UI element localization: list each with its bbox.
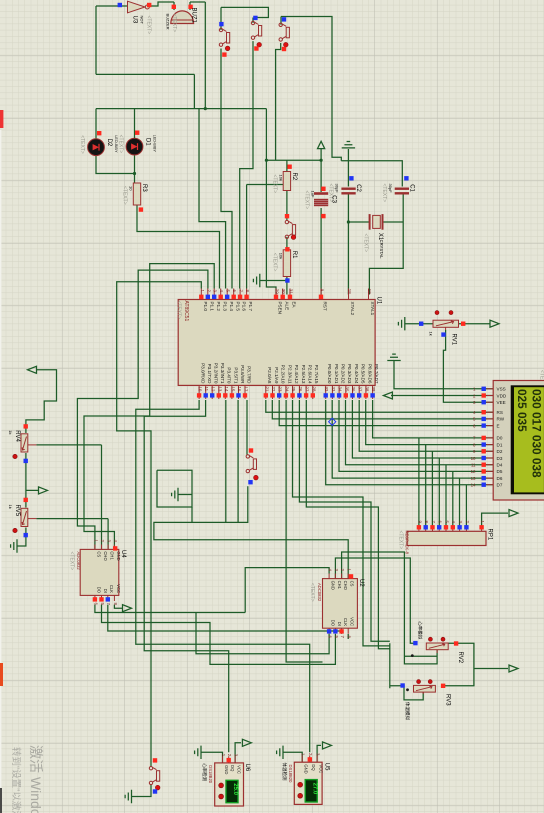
wire RV1 left to gnd [405,323,433,325]
U6 pins [222,756,224,763]
pot RV3 body [414,685,436,692]
svg-text:P0.6/AD6: P0.6/AD6 [367,364,372,384]
ground box (bottom left of MCU) [172,488,178,501]
svg-text:体温模拟: 体温模拟 [404,702,411,720]
wire U3 input net [96,6,194,109]
pot RV5 body [21,508,28,526]
node D1 D2 junction [133,172,136,175]
svg-text:RST: RST [323,302,328,311]
svg-text:P3.6/WR: P3.6/WR [240,365,245,384]
capacitor C1 [395,188,409,190]
svg-text:P2.2/A10: P2.2/A10 [281,365,286,384]
svg-text:C2: C2 [355,184,361,192]
wire RP1 riser 6 [452,471,454,526]
svg-text:BUZZER: BUZZER [166,14,171,30]
U5 display [305,780,317,802]
wire W1 P1.0 to button6 [117,282,202,767]
wire P0.2 to LCD D5 [339,400,493,471]
svg-text:VCC: VCC [319,764,324,773]
svg-text:CH1: CH1 [337,581,342,590]
resistor R1 [283,250,290,277]
svg-text:025 035: 025 035 [515,389,529,432]
wire P3.6 stub down [237,400,239,522]
power arrow RV4 (left) [28,366,37,373]
svg-text:15: 15 [230,387,235,392]
wire button6 bottom to gnd [132,785,152,797]
svg-text:P1.4: P1.4 [229,302,234,312]
wire rail B [341,161,402,187]
svg-text:P1.2: P1.2 [216,302,221,312]
node VCC rail junction [320,159,323,162]
svg-text:11: 11 [471,463,476,468]
svg-text:14: 14 [471,483,476,488]
svg-text:25.0: 25.0 [232,783,238,795]
svg-text:CLK: CLK [109,585,114,593]
svg-text:P0.5/AD5: P0.5/AD5 [361,364,366,384]
svg-text:RV5: RV5 [14,505,20,517]
wire P2.0 to LCD RS [266,400,493,412]
svg-text:19: 19 [367,289,372,294]
svg-text:P1.3: P1.3 [222,302,227,312]
wire W2 P1.1 to U4 [77,270,208,549]
wire rail top (LED rail) [96,108,266,110]
svg-text:D4: D4 [497,463,503,468]
svg-text:10k: 10k [279,175,284,181]
ADC U4 ADC0832 body [80,549,119,595]
svg-text:ADC0832: ADC0832 [76,552,81,571]
wire U5 gnd [283,752,302,762]
svg-text:10k: 10k [279,253,284,259]
svg-text:1k: 1k [8,430,13,434]
wire buzzer to rail [204,2,206,109]
svg-text:35: 35 [344,387,349,392]
power arrow U4 [123,605,132,612]
svg-text:D2: D2 [106,139,112,147]
svg-text:DQ: DQ [230,765,235,772]
svg-text:体温检测: 体温检测 [281,763,288,781]
svg-text:P2.1/A9: P2.1/A9 [274,367,279,384]
svg-text:ADC0832: ADC0832 [317,583,322,602]
wire P2.3 down to U2 area [286,400,322,662]
sensor U5 DS18B20 body [294,762,322,804]
svg-text:P3.0/RXD: P3.0/RXD [201,363,206,384]
svg-text:14: 14 [224,387,229,392]
svg-text:P2.7/A15: P2.7/A15 [314,365,319,384]
wire P3.4 stub down [225,400,227,522]
pot RV1 body [433,320,459,327]
wire R1 gnd stub [260,280,287,282]
svg-text:P0.2/AD2: P0.2/AD2 [341,364,346,384]
svg-text:CH1: CH1 [110,551,115,560]
wire RP1 pin1 to VCC arrow [482,513,508,526]
svg-text:P0.3/AD3: P0.3/AD3 [347,364,352,384]
svg-text:CRYSTAL: CRYSTAL [379,240,384,260]
svg-text:10: 10 [129,186,134,191]
svg-text:C1: C1 [409,184,415,192]
ground near R1 [253,274,259,287]
wire U2 DO loop [196,613,329,654]
svg-text:DS18B20: DS18B20 [288,765,293,784]
wire RP1 riser 1 [418,438,420,526]
svg-text:P3.2/INT0: P3.2/INT0 [214,363,219,384]
wire U2 CH0 to RV2 wiper loop [342,552,438,664]
pot RV4 body [21,434,28,452]
wire P3.1 to U6 DQ [144,400,229,752]
svg-text:<TEXT>: <TEXT> [303,191,309,210]
wire U6 gnd [201,752,223,763]
svg-text:30pF: 30pF [388,184,393,194]
MCU top pin stubs P1.0-P1.7 [200,289,202,300]
U5 pins [301,756,303,763]
svg-text:RW: RW [497,417,505,422]
U6 leds [219,783,224,788]
wire LCD VDD arrow [391,395,493,397]
svg-text:XTAL2: XTAL2 [350,302,355,316]
svg-text:U1: U1 [376,297,382,305]
ground U5 [277,746,283,759]
button B3 [279,23,289,41]
U4 bottom pins [94,595,96,601]
U5 leds [298,782,303,787]
svg-text:NOT: NOT [139,16,144,25]
power arrow RP1 [509,510,518,517]
capacitor C3 [314,192,328,195]
svg-text:P2.6/A14: P2.6/A14 [308,365,313,384]
wire C2 bottom to XTAL2 [347,195,349,295]
left edge artifacts [0,130,1,788]
svg-text:D5: D5 [497,469,503,474]
svg-text:VDD: VDD [497,393,507,398]
svg-text:U6: U6 [244,764,250,772]
svg-text:<TEXT>: <TEXT> [271,175,277,194]
wire P0.1 to LCD D6 [332,400,493,478]
svg-text:R2: R2 [291,173,297,181]
capacitor C2 [341,188,355,190]
wire RP1 riser 3 [431,451,433,526]
wire crystal left [348,221,369,223]
svg-text:激活 Windows: 激活 Windows [28,745,44,813]
svg-text:U2: U2 [358,579,364,587]
svg-text:23: 23 [278,387,283,392]
svg-text:P1.1: P1.1 [209,302,214,312]
node rail A left junction [265,159,268,162]
svg-text:38: 38 [364,387,369,392]
wire D1 bottom to R3 [134,155,136,183]
wire P0.3 to LCD D4 [346,400,494,465]
U2 bottom pins [328,628,330,634]
svg-text:P3.5/T1: P3.5/T1 [233,367,238,384]
svg-text:22: 22 [271,387,276,392]
wire RV3 wiper loop [400,686,423,700]
wire crystal right to C1 [384,221,404,223]
wire button3 top rail to gnd rail B [281,17,341,161]
resistor R3 [133,183,140,205]
svg-text:34: 34 [338,387,343,392]
wire U4 CH0 from RV4 wiper [36,445,101,550]
wire U4 DI bus to U2 DI [102,605,336,665]
wire U2 VCC stub [347,634,349,639]
svg-text:26: 26 [298,387,303,392]
wire W3 P1.2 to U4 gnd [84,264,214,550]
U2 top pins [328,574,330,579]
wire P2.4 to RV frame [293,400,401,688]
svg-text:P1.6: P1.6 [242,302,247,312]
svg-text:VEE: VEE [497,400,506,405]
svg-text:27.0: 27.0 [311,783,317,795]
svg-text:EA: EA [292,302,297,309]
svg-text:P2.5/A13: P2.5/A13 [301,365,306,384]
svg-text:DQ: DQ [311,764,316,771]
wire R2 top riser [286,160,288,171]
svg-text:25: 25 [291,387,296,392]
wire P2.6 tap [306,400,390,649]
power arrow RV1 [490,320,499,327]
svg-text:P0.0/AD0: P0.0/AD0 [327,364,332,384]
svg-text:VSS: VSS [497,387,506,392]
wire LCD VSS to gnd [394,361,493,389]
svg-text:RP1: RP1 [487,529,493,541]
svg-text:P1.5: P1.5 [235,302,240,312]
svg-text:D7: D7 [497,483,503,488]
node crystal C2 junction [347,220,350,223]
wire button2 bottom to P1.6 [240,41,253,288]
RP1 pins [418,530,420,532]
ground LCD VSS [387,354,400,360]
svg-text:<TEXT>: <TEXT> [171,14,177,33]
wire RV4 top staircase to arrow [26,370,57,433]
wire U4 CLK bus to U2 CLK [108,605,342,634]
svg-text:11: 11 [204,387,209,392]
wire R3 to P1.3 [137,205,220,289]
wire gate column to P1.4 [199,109,226,289]
button B2 [251,21,261,39]
svg-text:D1: D1 [497,442,503,447]
node voltage probe on P0.1 wire [329,418,336,425]
op-amp U3 NOT gate [128,1,146,13]
wire U5 VCC arrow [317,745,321,762]
svg-text:32: 32 [324,387,329,392]
wire LCD VEE to RV1 wiper [443,330,493,402]
wire button1 bottom to P1.5 [221,49,232,289]
svg-text:P3.3/INT1: P3.3/INT1 [220,363,225,384]
wire VCC arrow stem through C3 to RST [320,149,322,295]
svg-text:1k: 1k [8,505,13,509]
svg-text:27: 27 [305,387,310,392]
wire P2.2 to LCD E [279,400,493,426]
svg-text:33: 33 [331,387,336,392]
svg-text:<TEXT>: <TEXT> [271,253,277,272]
LED D1 [126,138,143,155]
svg-text:P0.1/AD1: P0.1/AD1 [334,364,339,384]
wire P0.4 to LCD D3 [352,400,493,458]
svg-text:P3.4/T0: P3.4/T0 [227,367,232,384]
svg-text:CS: CS [350,581,355,587]
svg-text:心率模拟: 心率模拟 [416,621,423,639]
svg-text:P1.0: P1.0 [203,302,208,312]
svg-text:16: 16 [237,387,242,392]
svg-text:C3: C3 [330,195,336,203]
svg-text:RS: RS [497,410,503,415]
svg-text:DI: DI [103,589,108,593]
svg-text:P2.0/A8: P2.0/A8 [267,367,272,384]
svg-text:P1.7: P1.7 [248,302,253,312]
svg-text:RV2: RV2 [457,652,463,664]
svg-text:13: 13 [471,476,476,481]
wire RP1 riser 4 [438,458,440,526]
svg-text:36: 36 [351,387,356,392]
svg-text:P3.7/RD: P3.7/RD [246,366,251,384]
svg-text:E: E [497,423,500,428]
svg-text:CS: CS [96,551,101,557]
svg-text:12: 12 [211,387,216,392]
svg-text:GND: GND [331,581,336,590]
wire RV4 bottom to arrow and RV5 top [26,453,38,508]
svg-text:<TEXT>: <TEXT> [176,301,182,320]
svg-text:12: 12 [471,469,476,474]
svg-text:VCC: VCC [116,584,121,593]
power arrow U6 [242,739,251,746]
power arrow VCC (up) [318,141,325,148]
svg-text:CHO: CHO [343,581,348,591]
svg-text:D3: D3 [497,456,503,461]
svg-text:30: 30 [281,289,286,294]
node buzzer rail junction [204,107,207,110]
svg-text:DO: DO [331,620,336,627]
wire R2 tap to P1.7 [247,185,284,289]
wire rail corner down to PSEN [266,109,276,295]
buzzer BUZ1 [171,11,194,24]
button B5 [246,455,256,473]
wire button5 bottom to U2 CS [154,486,348,578]
wire U2 gnd to bus [245,568,329,613]
svg-text:U5: U5 [323,763,329,771]
wire RP1 riser 8 [465,485,467,526]
wire C1 bottom to XTAL1 [369,195,403,295]
wire RP1 riser 5 [445,465,447,526]
wire U6 VCC arrow [235,743,241,763]
svg-text:31: 31 [289,289,294,294]
wire P2.1 to LCD RW [272,400,493,419]
svg-text:D0: D0 [497,436,503,441]
svg-text:37: 37 [358,387,363,392]
wire U2 CH1 to RV2 left [335,558,413,643]
svg-text:GND: GND [304,764,309,773]
ground U6 [195,746,201,759]
MCU U1 AT89C51 body [178,300,375,386]
svg-text:RV4: RV4 [14,430,20,442]
svg-text:XTAL1: XTAL1 [370,302,375,316]
svg-text:U4: U4 [120,550,126,558]
button B6 [149,767,159,785]
svg-text:29: 29 [275,289,280,294]
wire D2 bottom to D1 bottom [96,156,135,174]
wire gnd to C2 [347,149,349,187]
svg-text:LED-BIBY: LED-BIBY [152,135,156,153]
svg-text:R3: R3 [141,184,147,192]
svg-text:D6: D6 [497,476,503,481]
wire RP1 riser 7 [459,478,461,526]
wire R2 to button4 [286,191,288,221]
U4 top pins [94,545,96,550]
svg-text:RV3: RV3 [444,694,450,706]
svg-text:10: 10 [471,456,476,461]
svg-text:030 017 030 038: 030 017 030 038 [530,389,544,478]
svg-text:<TEXT>: <TEXT> [122,186,128,205]
svg-text:13: 13 [217,387,222,392]
wire P2.5 tap [299,400,389,641]
wire button4 to R1 [286,237,288,250]
svg-text:P3.1/TXD: P3.1/TXD [207,364,212,385]
svg-text:U3: U3 [131,16,137,24]
ground button B6 [125,790,131,803]
power arrow VDD (left) [383,392,392,399]
svg-text:<TEXT>: <TEXT> [79,135,85,154]
svg-text:<TEXT>: <TEXT> [398,531,404,550]
svg-text:RESPACK-8: RESPACK-8 [405,531,410,555]
wire D2 riser [95,109,97,139]
button B1 [219,28,229,46]
wire RP1 riser 2 [425,445,427,526]
LCD pin stubs [487,388,494,390]
RP1 pin 1 [481,530,483,532]
wire button5 top to P3.7 [246,400,248,455]
svg-text:心率检测: 心率检测 [201,763,208,781]
ground RV5 [11,539,17,552]
svg-text:D1: D1 [144,138,150,146]
svg-text:PSEN: PSEN [278,302,283,315]
wire RV1 right to arrow [459,323,490,325]
svg-text:转到“设置”以激活。: 转到“设置”以激活。 [10,747,22,813]
MCU top pin stubs PSEN ALE EA RST XTAL2 XTAL1 [275,289,277,300]
svg-text:CLK: CLK [343,618,348,626]
wire U4 VCC arrow [114,605,122,609]
svg-text:CHO: CHO [103,551,108,561]
resistor R2 [283,172,290,191]
svg-text:VCC: VCC [237,765,242,774]
wire VCC rail A [266,159,321,161]
svg-text:24: 24 [284,387,289,392]
svg-text:AT89C51: AT89C51 [183,301,189,322]
wire U4 CH1 from RV5 wiper [36,519,108,550]
svg-text:<TEXT>: <TEXT> [381,184,387,203]
svg-text:<TEXT>: <TEXT> [362,234,368,253]
svg-text:LED-BIBY: LED-BIBY [114,135,118,153]
wire P0.7 to LCD D0 [373,400,494,438]
wire P0.6 to LCD D1 [366,400,494,445]
svg-text:P0.7/AD7: P0.7/AD7 [374,364,379,384]
svg-text:<TEXT>: <TEXT> [145,16,151,35]
ground near RV1 [398,317,404,330]
wire button3 bottom to rail A [276,43,281,160]
wire gnd box [157,470,192,507]
sensor U6 DS18B20 body [215,763,244,806]
wire gnd box stub [191,507,193,522]
svg-text:DI: DI [337,622,342,626]
MCU bottom pin stubs P3 P2 P0 [198,385,200,399]
svg-text:28: 28 [311,387,316,392]
svg-text:RV1: RV1 [450,334,456,346]
svg-text:18: 18 [347,289,352,294]
U6 display [226,780,238,802]
svg-text:P2.3/A11: P2.3/A11 [287,365,292,384]
svg-text:DO: DO [96,587,101,594]
svg-text:ALE: ALE [284,302,289,311]
wire button1 top net [221,7,268,30]
svg-text:P2.4/A12: P2.4/A12 [294,365,299,384]
svg-text:R1: R1 [291,251,297,259]
wire U4 DO bus [95,605,245,613]
crystal X1 [369,214,371,230]
